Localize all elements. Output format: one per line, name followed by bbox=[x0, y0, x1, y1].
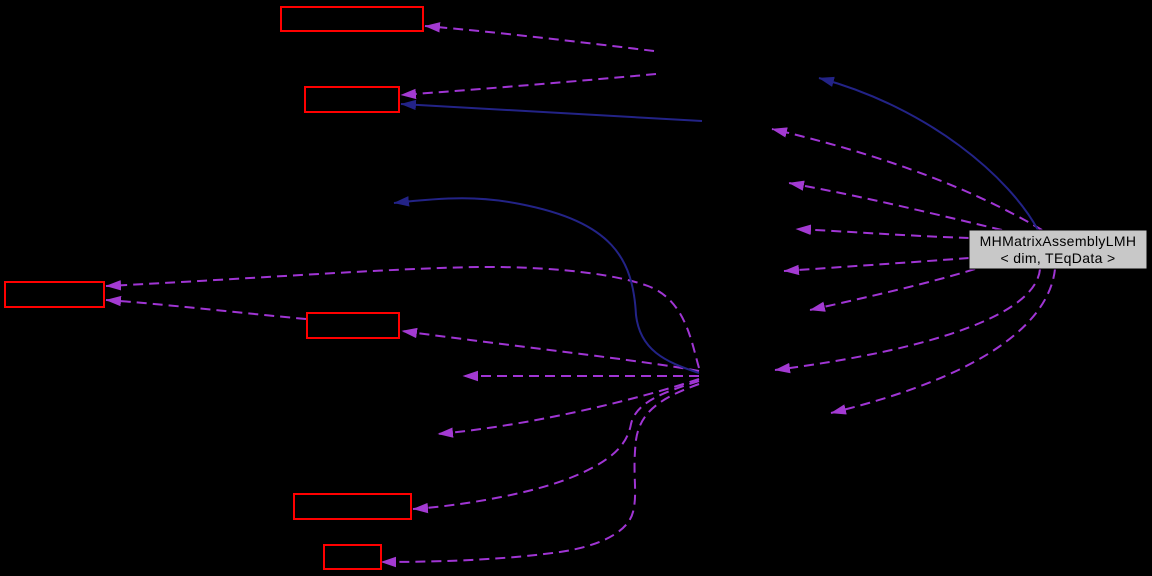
box B4 bbox=[307, 313, 399, 338]
usage edge E15 to box B6 bbox=[381, 384, 699, 562]
edges from gray node MHMatrixAssemblyLMH bbox=[772, 129, 1055, 413]
usage edge E10b from box B4 to box B3 bbox=[106, 300, 306, 319]
usage edge E13 bbox=[438, 379, 699, 434]
usage edge E6 to central hidden node bbox=[775, 269, 1040, 370]
box B5 bbox=[294, 494, 411, 519]
box B6 bbox=[324, 545, 381, 569]
usage edge E12 horizontal bbox=[463, 375, 699, 377]
usage edge E10a to box B3 bbox=[106, 267, 699, 368]
usage edge E8 to box B1 bbox=[425, 26, 654, 51]
inheritance edge (blue) from gray node to hidden base at top bbox=[819, 78, 1038, 230]
gray node MHMatrixAssemblyLMH bbox=[969, 230, 1147, 269]
usage edge E4 bbox=[784, 258, 969, 271]
usage edge E2 bbox=[789, 183, 1002, 230]
svg-text:< dim, TEqData >: < dim, TEqData > bbox=[1000, 250, 1115, 266]
edges from central hidden node C bbox=[106, 267, 699, 562]
svg-text:MHMatrixAssemblyLMH: MHMatrixAssemblyLMH bbox=[980, 233, 1137, 249]
inheritance edge (blue) from central hidden node C bbox=[394, 198, 699, 373]
box B1 bbox=[281, 7, 423, 31]
box B3 bbox=[5, 282, 104, 307]
usage edge E1 bbox=[772, 129, 1042, 230]
usage edge E7 bbox=[831, 269, 1055, 413]
edges from hidden top node T bbox=[401, 26, 656, 95]
usage edge E14 to box B5 bbox=[413, 381, 699, 509]
usage edge E3 bbox=[796, 229, 969, 238]
usage edge E9 to box B2 bbox=[401, 74, 656, 95]
inheritance edge (blue) from hidden node X to box B2 bbox=[401, 104, 702, 121]
usage edge E11 to box B4 bbox=[402, 331, 699, 371]
box B2 bbox=[305, 87, 399, 112]
usage edge E5 bbox=[810, 269, 975, 310]
